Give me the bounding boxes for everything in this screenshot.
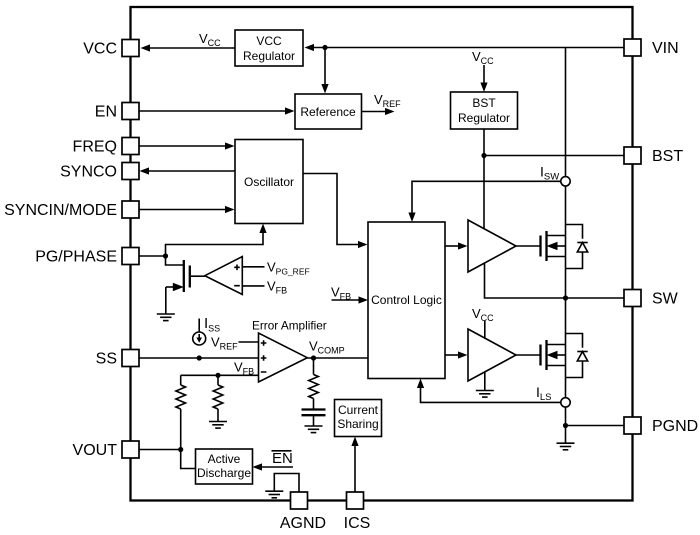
wire ICS pin to Current Sharing bbox=[354, 446, 356, 492]
svg-text:BST: BST bbox=[472, 96, 496, 110]
wire high-side FET vertical rail bbox=[565, 186, 567, 398]
transistor M1 PG pull-down MOSFET bbox=[166, 260, 205, 292]
block VCC Regulator bbox=[235, 30, 303, 66]
block Control Logic bbox=[368, 222, 445, 379]
node PGND junction bbox=[563, 423, 568, 428]
svg-text:AGND: AGND bbox=[280, 515, 326, 532]
svg-text:VIN: VIN bbox=[652, 40, 679, 57]
wire BST node to BST pin bbox=[484, 155, 624, 157]
current sensor ISW bbox=[561, 177, 570, 186]
svg-text:VCC: VCC bbox=[83, 41, 117, 58]
pin BST bbox=[624, 147, 641, 164]
wire Control Logic to high-side driver bbox=[445, 245, 458, 247]
wire PGND node to PGND pin bbox=[566, 425, 625, 427]
node VOUT junction bbox=[178, 447, 183, 452]
svg-text:SS: SS bbox=[96, 351, 117, 368]
wire VOUT node to Active Discharge bbox=[181, 450, 196, 469]
pin VOUT bbox=[122, 441, 139, 458]
transistor Q2 low-side MOSFET bbox=[541, 340, 566, 370]
wire VOUT pin to divider bbox=[140, 449, 181, 451]
wire BST Regulator down to BST node bbox=[483, 129, 485, 156]
node SW junction bbox=[563, 295, 568, 300]
wire V_FB into error amp bbox=[181, 374, 259, 376]
block Reference bbox=[295, 94, 362, 129]
svg-text:Regulator: Regulator bbox=[458, 111, 510, 125]
block Oscillator bbox=[235, 140, 303, 224]
wire Oscillator output to Control Logic bbox=[303, 174, 358, 245]
block BST Regulator bbox=[451, 92, 518, 129]
op-amp U2 PG comparator bbox=[205, 257, 243, 295]
svg-text:PGND: PGND bbox=[652, 418, 698, 435]
wire V_REF output of Reference bbox=[362, 111, 386, 113]
pin AGND bbox=[291, 492, 308, 509]
wire VIN-rail branch down to Reference bbox=[324, 48, 326, 85]
wire V_FB input of comparator bbox=[242, 285, 264, 287]
svg-text:EN: EN bbox=[95, 104, 117, 121]
pin ICS bbox=[347, 492, 364, 509]
ground M1 source bbox=[157, 314, 175, 321]
wire PG node down to M1 drain bbox=[166, 256, 184, 265]
ground compensation network bbox=[305, 426, 323, 433]
svg-text:VCC: VCC bbox=[256, 34, 282, 48]
current sensor ILS bbox=[561, 398, 570, 407]
svg-text:BST: BST bbox=[652, 148, 683, 165]
pin SW bbox=[624, 290, 641, 307]
node PG junction bbox=[163, 253, 168, 258]
wire VIN-rail branch down to high-side FET bbox=[565, 48, 567, 177]
pin VIN bbox=[624, 39, 641, 56]
node V_FB junction bbox=[215, 373, 220, 378]
node BST junction bbox=[481, 153, 486, 158]
ground analog ground bbox=[265, 491, 283, 498]
wire AGND pin hook to analog ground bbox=[274, 474, 299, 492]
svg-text:FREQ: FREQ bbox=[73, 139, 117, 156]
ground R2 bbox=[209, 422, 227, 429]
node VIN-rail junction bbox=[322, 45, 327, 50]
svg-text:SYNCO: SYNCO bbox=[60, 164, 117, 181]
wire Control Logic to low-side driver bbox=[445, 354, 458, 356]
wire V_PG_REF input bbox=[242, 266, 264, 268]
pin PGND bbox=[624, 417, 641, 434]
wire PG node up into Oscillator bbox=[166, 233, 264, 256]
wire Oscillator to SYNCO pin bbox=[149, 170, 235, 172]
block Current Sharing bbox=[335, 400, 382, 437]
current source ISS bbox=[193, 319, 206, 346]
svg-text:Oscillator: Oscillator bbox=[244, 175, 294, 189]
resistor R3 compensation bbox=[309, 358, 319, 410]
svg-text:Current: Current bbox=[338, 403, 379, 417]
wire EN-bar into Active Discharge bbox=[262, 466, 293, 468]
svg-text:ICS: ICS bbox=[344, 515, 371, 532]
wire ILS down to PGND node bbox=[565, 407, 567, 443]
wire EN pin to Reference bbox=[140, 110, 286, 112]
wire high-side driver to gate bbox=[516, 245, 541, 247]
op-amp low-side gate driver bbox=[468, 329, 516, 381]
op-amp U1 error amplifier bbox=[259, 333, 308, 382]
wire VCC supply into low-side driver bbox=[484, 321, 486, 338]
outer IC boundary box bbox=[131, 7, 633, 501]
wire high-side driver return to SW bbox=[485, 264, 625, 299]
wire M1 source to ground bbox=[165, 287, 167, 314]
svg-text:SYNCIN/MODE: SYNCIN/MODE bbox=[4, 202, 117, 219]
pin FREQ bbox=[122, 138, 139, 155]
node SS junction bbox=[197, 355, 202, 360]
svg-text:Regulator: Regulator bbox=[243, 49, 295, 63]
svg-text:Sharing: Sharing bbox=[337, 417, 378, 431]
transistor Q1 high-side MOSFET bbox=[541, 231, 566, 261]
wire VIN rail from VIN pin to VCC Regulator bbox=[314, 47, 624, 49]
svg-text:EN: EN bbox=[272, 450, 293, 467]
wire VCC Regulator output to VCC pin bbox=[150, 47, 235, 49]
pin SYNCIN/MODE bbox=[122, 201, 139, 218]
svg-text:VOUT: VOUT bbox=[73, 442, 118, 459]
wire error amp output to Control Logic bbox=[308, 357, 369, 359]
pin VCC bbox=[122, 40, 139, 57]
wire low-side driver to gate bbox=[516, 354, 541, 356]
block Active Discharge bbox=[196, 449, 253, 484]
svg-text:SW: SW bbox=[652, 291, 679, 308]
wire BST node down to high-side driver bbox=[483, 156, 485, 230]
node VCOMP junction bbox=[311, 355, 316, 360]
op-amp high-side gate driver bbox=[468, 220, 516, 272]
svg-text:Error Amplifier: Error Amplifier bbox=[252, 319, 327, 333]
svg-text:Active: Active bbox=[208, 452, 241, 466]
svg-text:Control Logic: Control Logic bbox=[371, 293, 442, 307]
svg-text:Reference: Reference bbox=[300, 105, 356, 119]
wire ILS sense to Control Logic bottom bbox=[421, 388, 561, 402]
ground power ground bbox=[557, 443, 575, 450]
wire low-side driver ground stem bbox=[484, 372, 486, 391]
ground low-side driver bbox=[476, 391, 494, 398]
capacitor C1 compensation bbox=[302, 410, 326, 427]
pin PG/PHASE bbox=[122, 248, 139, 265]
pin SS bbox=[122, 350, 139, 367]
svg-text:PG/PHASE: PG/PHASE bbox=[35, 249, 117, 266]
pin EN bbox=[122, 103, 139, 120]
wire SYNCIN/MODE pin to Oscillator bbox=[140, 209, 226, 211]
diode D1 high-side body diode bbox=[566, 225, 588, 269]
diode D2 low-side body diode bbox=[566, 334, 588, 378]
wire PG/PHASE pin to node bbox=[140, 255, 166, 257]
svg-text:Discharge: Discharge bbox=[197, 466, 251, 480]
resistor R1 feedback top bbox=[176, 375, 186, 449]
wire FREQ pin to Oscillator bbox=[140, 145, 226, 147]
wire VCC into BST Regulator bbox=[483, 65, 485, 83]
pin SYNCO bbox=[122, 163, 139, 180]
wire SS pin to error amp bbox=[140, 357, 259, 359]
wire V_FB stub into Control Logic bbox=[332, 299, 359, 301]
resistor R2 feedback bottom bbox=[213, 375, 223, 421]
wire V_REF into error amp bbox=[239, 341, 259, 343]
wire ISW sense to Control Logic top bbox=[412, 181, 561, 212]
